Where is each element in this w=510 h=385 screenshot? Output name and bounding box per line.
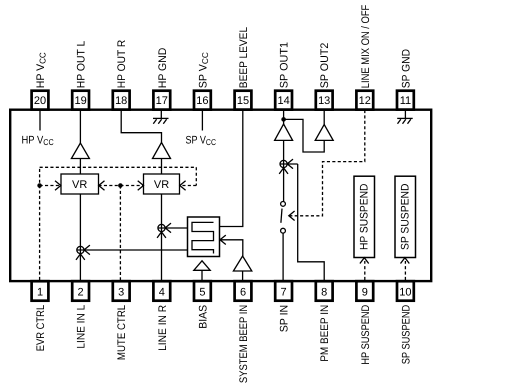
svg-text:SP GND: SP GND [400,49,412,88]
svg-text:20: 20 [34,95,46,107]
svg-text:2: 2 [78,287,84,299]
svg-text:MUTE CTRL: MUTE CTRL [116,305,128,360]
svg-text:1: 1 [37,287,43,299]
svg-text:15: 15 [237,95,249,107]
svg-text:VR: VR [154,179,169,191]
svg-text:HP OUT L: HP OUT L [76,41,88,89]
svg-text:16: 16 [196,95,208,107]
svg-text:SP SUSPEND: SP SUSPEND [400,184,412,251]
svg-text:HP SUSPEND: HP SUSPEND [360,305,372,365]
svg-text:5: 5 [199,287,205,299]
svg-text:HP VCC: HP VCC [22,134,54,147]
svg-text:11: 11 [400,95,411,107]
svg-text:LINE MIX ON / OFF: LINE MIX ON / OFF [360,4,372,88]
svg-text:BIAS: BIAS [197,305,209,329]
svg-text:14: 14 [277,95,289,107]
svg-text:3: 3 [118,287,124,299]
svg-text:6: 6 [240,287,246,299]
svg-text:SP VCC: SP VCC [186,134,217,147]
svg-text:4: 4 [159,287,165,299]
svg-text:17: 17 [156,95,168,107]
svg-text:18: 18 [115,95,127,107]
svg-text:SP IN: SP IN [279,305,291,333]
svg-text:HP GND: HP GND [157,48,169,89]
svg-text:LINE IN L: LINE IN L [76,305,88,349]
svg-text:SP OUT2: SP OUT2 [319,43,331,89]
svg-text:VR: VR [72,179,87,191]
svg-text:10: 10 [399,287,411,299]
svg-text:SYSTEM BEEP IN: SYSTEM BEEP IN [238,305,250,383]
svg-text:19: 19 [74,95,86,107]
svg-text:8: 8 [321,287,327,299]
svg-text:PM BEEP IN: PM BEEP IN [319,305,331,362]
svg-text:HP VCC: HP VCC [35,52,48,88]
svg-text:HP SUSPEND: HP SUSPEND [359,184,371,251]
svg-text:SP VCC: SP VCC [197,52,210,88]
svg-text:BEEP LEVEL: BEEP LEVEL [238,27,250,88]
svg-text:LINE IN R: LINE IN R [157,305,169,351]
svg-text:12: 12 [359,95,371,107]
svg-text:HP OUT R: HP OUT R [116,40,128,89]
svg-text:13: 13 [318,95,330,107]
svg-text:EVR CTRL: EVR CTRL [35,305,47,352]
svg-text:9: 9 [362,287,368,299]
svg-text:SP OUT1: SP OUT1 [279,42,291,88]
svg-text:7: 7 [281,287,287,299]
svg-text:SP SUSPEND: SP SUSPEND [400,305,412,365]
